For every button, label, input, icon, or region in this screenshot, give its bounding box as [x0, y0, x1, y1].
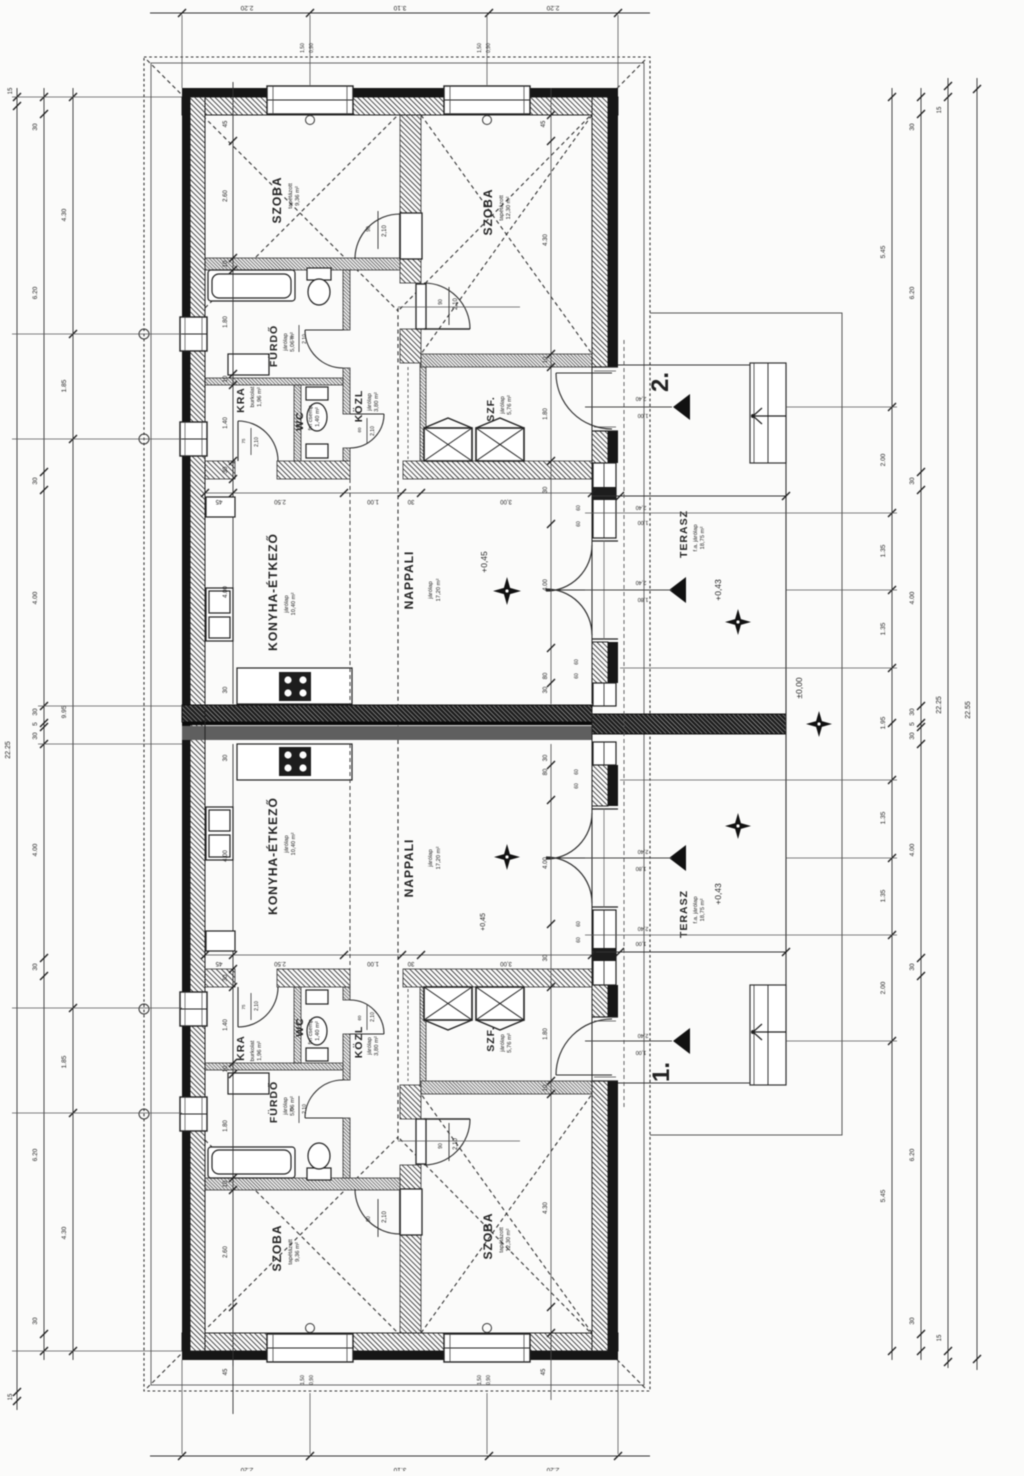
door leader line (unit 1): [398, 1140, 520, 1142]
inner wall face lines u2: [205, 114, 592, 116]
svg-text:2.00: 2.00: [880, 981, 887, 994]
svg-text:4.00: 4.00: [543, 579, 549, 591]
left wall window: [180, 992, 207, 1026]
svg-text:3.10: 3.10: [393, 4, 406, 11]
svg-text:2,10: 2,10: [254, 437, 260, 447]
svg-text:22.25: 22.25: [5, 741, 12, 759]
svg-text:90: 90: [366, 226, 372, 232]
door wc (unit 1): [350, 1033, 384, 1035]
svg-text:KRA: KRA: [235, 1035, 247, 1061]
interior chain horizontal u2: [205, 492, 592, 494]
svg-text:fm csemp.: fm csemp.: [308, 403, 314, 430]
svg-text:15: 15: [8, 1393, 14, 1400]
szoba2 X diagonal b: [421, 115, 592, 354]
right wall pier A: [592, 431, 608, 463]
svg-text:80: 80: [543, 768, 549, 775]
svg-text:10: 10: [223, 1065, 229, 1072]
svg-text:1,50: 1,50: [300, 43, 306, 53]
svg-text:2,40: 2,40: [638, 925, 649, 931]
svg-text:1.95: 1.95: [880, 716, 887, 729]
svg-text:burkolat: burkolat: [250, 1040, 256, 1061]
interior chain horizontal u1: [205, 954, 592, 956]
svg-text:30: 30: [543, 954, 549, 961]
right exterior wall lower hatched: [592, 1081, 608, 1351]
svg-text:30: 30: [223, 754, 229, 761]
svg-text:±0,00: ±0,00: [794, 677, 804, 698]
wall furdo-kozl (unit 2): [343, 270, 350, 330]
svg-text:1.80: 1.80: [223, 316, 229, 328]
svg-text:4.00: 4.00: [223, 850, 229, 862]
left dim chain 2 line: [43, 88, 45, 1360]
svg-text:2.50: 2.50: [274, 498, 286, 504]
svg-text:1.80: 1.80: [543, 408, 549, 420]
svg-text:30: 30: [32, 708, 39, 716]
svg-text:45: 45: [215, 960, 222, 966]
wall szf left thin (unit 2): [420, 363, 426, 461]
wall furdo-kozl (unit 1): [343, 1118, 350, 1178]
svg-text:60: 60: [574, 659, 580, 665]
interior chain vertical right u2: [550, 88, 552, 704]
svg-text:+0,45: +0,45: [479, 551, 489, 573]
svg-text:10: 10: [543, 1084, 549, 1091]
svg-text:2,10: 2,10: [382, 1211, 388, 1223]
left wall window: [180, 1097, 207, 1131]
svg-text:2,40: 2,40: [638, 848, 649, 854]
roof hip top-right: [398, 60, 645, 311]
svg-text:1,00: 1,00: [636, 940, 647, 946]
party wall joint gray band: [182, 726, 592, 740]
svg-text:WC: WC: [294, 1017, 306, 1037]
svg-text:30: 30: [909, 477, 916, 485]
svg-text:SZOBA: SZOBA: [270, 1225, 284, 1272]
porch dashed line: [623, 340, 625, 1110]
szoba1 anti diagonal dashed: [205, 115, 398, 308]
svg-text:0,90: 0,90: [486, 1375, 492, 1385]
left dim chain 3 line: [72, 88, 74, 1360]
svg-text:KÖZL: KÖZL: [352, 390, 365, 423]
left window circle: [139, 1004, 149, 1014]
svg-text:1,50: 1,50: [300, 1375, 306, 1385]
svg-text:NAPPALI: NAPPALI: [402, 839, 416, 898]
svg-text:9.95: 9.95: [61, 705, 68, 718]
svg-text:1.85: 1.85: [61, 1055, 68, 1068]
svg-text:2.20: 2.20: [240, 4, 253, 11]
svg-text:járólap: járólap: [367, 1037, 373, 1055]
svg-text:1,80: 1,80: [636, 865, 647, 871]
svg-text:1.35: 1.35: [880, 889, 887, 902]
door furdo (unit 1): [305, 1117, 343, 1119]
svg-text:f.a. járólap: f.a. járólap: [693, 896, 699, 923]
svg-text:SZF.: SZF.: [485, 396, 497, 422]
unit 2 entrance triangle: [673, 394, 690, 420]
toilet wc room (unit 1): [306, 1048, 328, 1061]
svg-text:1.35: 1.35: [880, 622, 887, 635]
door szoba1 (unit 2): [400, 213, 422, 259]
svg-text:15: 15: [8, 87, 14, 94]
right wall pier B mirror: [592, 765, 608, 806]
wardrobe X boxes szf (unit 1): [424, 987, 472, 1020]
right wall dark pier in window mirror: [592, 948, 616, 961]
left wall window: [180, 422, 207, 456]
svg-text:1.00: 1.00: [367, 498, 379, 504]
svg-text:18,75 m²: 18,75 m²: [700, 526, 706, 549]
svg-text:NAPPALI: NAPPALI: [402, 551, 416, 610]
kitchen counter at party wall (unit 1): [237, 744, 352, 780]
kitchen counter at party wall (unit 2): [237, 668, 352, 704]
toilet wc room (unit 2): [306, 387, 328, 400]
svg-text:1,00: 1,00: [636, 1049, 647, 1055]
svg-text:45: 45: [541, 1368, 547, 1375]
top extension lines: [309, 15, 311, 85]
svg-text:tapétázott: tapétázott: [499, 1227, 505, 1253]
svg-text:17,20 m²: 17,20 m²: [436, 846, 442, 869]
kitchen sink unit (unit 2): [206, 588, 233, 641]
svg-text:45: 45: [223, 1368, 229, 1375]
svg-text:30: 30: [543, 686, 549, 693]
svg-text:2,40: 2,40: [638, 1032, 649, 1038]
svg-text:tapétázott: tapétázott: [288, 1239, 294, 1265]
steps top unit: [750, 363, 786, 463]
svg-text:6.20: 6.20: [909, 286, 916, 299]
svg-text:KONYHA-ÉTKEZŐ: KONYHA-ÉTKEZŐ: [265, 797, 280, 915]
svg-text:30: 30: [223, 466, 229, 473]
kitchen cabinet (unit 2): [206, 497, 235, 517]
bathtub (unit 2): [208, 270, 295, 301]
roof ridge dashed: [397, 308, 399, 1140]
door szoba2 (unit 1): [416, 1119, 426, 1164]
svg-text:75: 75: [289, 335, 294, 341]
svg-text:4.00: 4.00: [909, 843, 916, 856]
wall kra-wc (unit 1): [294, 987, 301, 1063]
svg-text:4.00: 4.00: [543, 857, 549, 869]
svg-text:SZOBA: SZOBA: [270, 177, 284, 224]
svg-text:4.30: 4.30: [61, 208, 68, 221]
svg-text:4.00: 4.00: [32, 843, 39, 856]
inner wall face lines u1: [205, 1332, 592, 1334]
terrace slab outline: [618, 365, 786, 1083]
svg-text:SZF.: SZF.: [485, 1026, 497, 1052]
wardrobe X boxes szf (unit 2): [424, 428, 472, 461]
svg-text:30: 30: [32, 123, 39, 131]
svg-text:30: 30: [223, 686, 229, 693]
right dim chain C line: [947, 78, 949, 1368]
svg-text:3,00: 3,00: [500, 960, 512, 966]
roof hip bottom-right: [398, 1137, 645, 1388]
svg-text:1,40 m²: 1,40 m²: [315, 1021, 321, 1041]
svg-text:1,96 m²: 1,96 m²: [257, 1041, 263, 1061]
window W2 center circle: [483, 116, 492, 125]
svg-text:+0,43: +0,43: [713, 883, 723, 905]
svg-text:60: 60: [574, 769, 580, 775]
svg-text:KÖZL: KÖZL: [352, 1026, 365, 1059]
svg-text:10: 10: [223, 1180, 229, 1187]
svg-text:járólap: járólap: [500, 396, 506, 414]
svg-text:22.25: 22.25: [936, 696, 943, 714]
svg-text:10: 10: [223, 375, 229, 382]
svg-text:járólap: járólap: [428, 581, 434, 599]
right wall door jambs mirror: [592, 1080, 618, 1082]
svg-text:2,10: 2,10: [382, 225, 388, 237]
unit 1 terrace triangle: [669, 845, 686, 871]
door szoba2 (unit 2): [416, 284, 426, 329]
svg-text:1.80: 1.80: [223, 1120, 229, 1132]
wc toilet in bathroom (unit 2): [307, 268, 331, 280]
svg-text:fm csemp.: fm csemp.: [308, 1017, 314, 1044]
washbasin (unit 1): [228, 1073, 269, 1094]
svg-text:10: 10: [543, 356, 549, 363]
svg-text:burkolat: burkolat: [250, 386, 256, 407]
svg-text:KRA: KRA: [235, 387, 247, 413]
svg-text:2,10: 2,10: [302, 1104, 308, 1114]
left window circle: [139, 329, 149, 339]
door wc (unit 2): [350, 413, 384, 415]
svg-text:1.00: 1.00: [367, 960, 379, 966]
svg-text:6.20: 6.20: [32, 286, 39, 299]
svg-text:0,90: 0,90: [309, 1375, 315, 1385]
svg-text:1.80: 1.80: [543, 1028, 549, 1040]
right wall small window mirror: [593, 742, 616, 765]
right wall small window: [593, 683, 616, 706]
right wall window band mirror: [593, 910, 616, 985]
svg-text:6.20: 6.20: [32, 1148, 39, 1161]
svg-text:6.20: 6.20: [909, 1148, 916, 1161]
svg-text:30: 30: [407, 498, 414, 504]
svg-text:9,36 m²: 9,36 m²: [295, 186, 301, 206]
svg-text:4.30: 4.30: [61, 1226, 68, 1239]
roof hip top-left: [147, 60, 398, 311]
svg-text:1.40: 1.40: [223, 417, 229, 429]
szoba1 anti diagonal dashed mirror: [205, 1140, 398, 1333]
svg-text:2,10: 2,10: [370, 426, 376, 436]
svg-text:WC: WC: [294, 411, 306, 431]
svg-text:2,10: 2,10: [302, 334, 308, 344]
svg-text:járólap: járólap: [284, 595, 290, 613]
svg-text:90: 90: [438, 1143, 444, 1149]
svg-text:12,30 m²: 12,30 m²: [506, 1228, 512, 1251]
svg-text:30: 30: [407, 960, 414, 966]
svg-text:1,00: 1,00: [638, 519, 649, 525]
svg-text:3.10: 3.10: [393, 1466, 406, 1471]
roof hip bottom-left: [147, 1137, 398, 1388]
door furdo (unit 2): [305, 329, 343, 331]
svg-text:10: 10: [223, 260, 229, 267]
svg-text:90: 90: [438, 299, 444, 305]
svg-text:9,36 m²: 9,36 m²: [295, 1242, 301, 1262]
svg-text:1,00: 1,00: [638, 412, 649, 418]
svg-text:2.60: 2.60: [223, 190, 229, 202]
svg-text:2,40: 2,40: [636, 579, 647, 585]
terrace north edge: [592, 495, 786, 497]
room divider dashed kozl u2: [349, 479, 351, 704]
right dim chain D line: [976, 78, 978, 1370]
svg-text:2.00: 2.00: [880, 453, 887, 466]
szf dashed boundary (unit 2): [407, 367, 409, 459]
wall furdo bottom (unit 2): [205, 378, 343, 385]
room divider dashed kozl u1: [349, 744, 351, 969]
szoba2 X diagonal a: [421, 115, 592, 354]
party wall center line: [182, 722, 592, 725]
svg-text:5.45: 5.45: [880, 245, 887, 258]
svg-text:0,90: 0,90: [486, 43, 492, 53]
svg-text:45: 45: [223, 120, 229, 127]
svg-text:45: 45: [541, 120, 547, 127]
left window circle: [139, 434, 149, 444]
svg-text:5: 5: [909, 722, 916, 726]
svg-text:járólap: járólap: [367, 393, 373, 411]
svg-text:10,40 m²: 10,40 m²: [291, 832, 297, 855]
bottom dim chain line: [150, 1455, 650, 1457]
bottom exterior wall hatched: [182, 1333, 618, 1351]
right exterior wall upper hatched: [592, 97, 608, 367]
svg-text:60: 60: [574, 673, 580, 679]
svg-text:2.60: 2.60: [223, 1246, 229, 1258]
right wall pier B: [592, 642, 608, 683]
svg-text:2,40: 2,40: [636, 395, 647, 401]
wall kitchen band (unit 2): [205, 461, 235, 479]
svg-text:30: 30: [32, 477, 39, 485]
interior chain vertical right u1: [550, 744, 552, 1360]
svg-text:4.30: 4.30: [543, 1202, 549, 1214]
window W2: [444, 86, 530, 114]
svg-text:4.00: 4.00: [909, 591, 916, 604]
svg-text:2,10: 2,10: [453, 298, 459, 310]
door terrace big arc (unit 2): [546, 545, 592, 635]
svg-text:4.30: 4.30: [543, 234, 549, 246]
right wall dark pier in window: [592, 487, 616, 500]
left wall window: [180, 317, 207, 351]
right wall door jambs: [592, 366, 618, 368]
roof overhang dashed outline: [144, 57, 650, 1391]
top dim chain line: [150, 12, 650, 14]
unit 2 terrace triangle: [669, 577, 686, 603]
steps bottom unit: [750, 985, 786, 1085]
left chain1 ticks: [13, 93, 21, 101]
svg-text:5,76 m²: 5,76 m²: [507, 1033, 513, 1053]
svg-text:járólap: járólap: [284, 835, 290, 853]
svg-text:tapétázott: tapétázott: [499, 195, 505, 221]
szoba2 X diagonal b mirror: [421, 1094, 592, 1333]
window W1 center circle: [306, 116, 315, 125]
svg-text:1.: 1.: [648, 1062, 675, 1082]
wall kra-wc (unit 2): [294, 385, 301, 461]
svg-text:30: 30: [909, 1317, 916, 1325]
svg-text:1.40: 1.40: [223, 1019, 229, 1031]
terrace south edge: [592, 951, 786, 953]
door terrace big arc (unit 1): [546, 813, 592, 903]
stove (unit 1): [279, 747, 311, 776]
top exterior wall hatched: [182, 97, 618, 115]
left exterior wall hatched: [190, 97, 205, 1351]
svg-text:15: 15: [937, 1334, 943, 1341]
wall szf left thin (unit 1): [420, 987, 426, 1085]
svg-text:2,10: 2,10: [453, 1138, 459, 1150]
left dim chain 1 line: [16, 88, 18, 1410]
svg-text:5: 5: [32, 722, 39, 726]
washbasin (unit 2): [228, 354, 269, 375]
door szf entrance (unit 1): [556, 1074, 612, 1076]
window W1 mirror: [267, 1334, 353, 1362]
svg-text:60: 60: [576, 521, 582, 527]
svg-text:2,10: 2,10: [254, 1001, 260, 1011]
svg-text:1,80: 1,80: [638, 596, 649, 602]
right dim chain B line: [920, 88, 922, 1360]
wall szoba2 bottom (unit 2): [421, 354, 592, 367]
svg-text:60: 60: [357, 1015, 362, 1021]
svg-text:+0,45: +0,45: [480, 913, 487, 931]
svg-text:3,80 m²: 3,80 m²: [374, 392, 380, 412]
szf dashed boundary (unit 1): [407, 989, 409, 1081]
party wall terrace extension: [592, 714, 786, 734]
svg-text:2.50: 2.50: [274, 960, 286, 966]
svg-text:75: 75: [241, 438, 246, 444]
door kamra (unit 2): [237, 421, 239, 461]
wc toilet in bathroom (unit 1): [307, 1168, 331, 1180]
svg-text:1,96 m²: 1,96 m²: [257, 387, 263, 407]
svg-text:járólap: járólap: [500, 1034, 506, 1052]
interior chain vertical left u2: [229, 137, 237, 145]
window W1: [267, 86, 353, 114]
svg-text:TERASZ: TERASZ: [678, 510, 690, 558]
roof eave solid outline: [151, 63, 644, 1385]
bottom extension lines: [309, 1393, 311, 1454]
window W2 center circle mirror: [483, 1324, 492, 1333]
svg-text:90: 90: [366, 1216, 372, 1222]
wall furdo bottom (unit 1): [205, 1063, 343, 1070]
unit 1 entrance triangle: [673, 1028, 690, 1054]
svg-text:1,50: 1,50: [477, 43, 483, 53]
stove (unit 2): [279, 672, 311, 701]
svg-text:15: 15: [937, 106, 943, 113]
interior chain vertical left u1: [229, 1303, 237, 1311]
svg-text:1.85: 1.85: [61, 379, 68, 392]
svg-text:60: 60: [574, 783, 580, 789]
right wall window band: [593, 463, 616, 538]
door szf entrance (unit 2): [556, 372, 612, 374]
window W2 mirror: [444, 1334, 530, 1362]
wall szoba1 bottom (unit 1): [205, 1178, 400, 1190]
left extension lines: [12, 96, 182, 98]
svg-text:30: 30: [223, 974, 229, 981]
svg-text:30: 30: [909, 963, 916, 971]
kitchen sink unit (unit 1): [206, 807, 233, 860]
window W1 center circle mirror: [306, 1324, 315, 1333]
svg-text:3,80 m²: 3,80 m²: [374, 1036, 380, 1056]
svg-text:járólap: járólap: [428, 849, 434, 867]
svg-text:TERASZ: TERASZ: [678, 890, 690, 938]
right dim chain A line: [891, 88, 893, 1360]
svg-text:1.35: 1.35: [880, 811, 887, 824]
left window circle: [139, 1109, 149, 1119]
wall szoba1 bottom (unit 2): [205, 258, 400, 270]
kitchen counter line (unit 2): [232, 82, 234, 704]
szoba2 X diagonal a mirror: [421, 1094, 592, 1333]
svg-text:2.20: 2.20: [240, 1466, 253, 1471]
svg-text:2.20: 2.20: [546, 4, 559, 11]
svg-text:30: 30: [909, 123, 916, 131]
right extension lines: [585, 512, 897, 514]
svg-text:12,30 m²: 12,30 m²: [506, 196, 512, 219]
svg-text:5,06 m²: 5,06 m²: [290, 332, 296, 352]
svg-text:60: 60: [357, 427, 362, 433]
svg-text:FÜRDŐ: FÜRDŐ: [267, 1081, 280, 1123]
svg-text:60: 60: [576, 505, 582, 511]
svg-text:1,50: 1,50: [477, 1375, 483, 1385]
door szoba1 (unit 1): [400, 1189, 422, 1235]
svg-text:f.a. járólap: f.a. járólap: [693, 524, 699, 551]
svg-text:2,10: 2,10: [370, 1012, 376, 1022]
svg-text:4.00: 4.00: [223, 586, 229, 598]
svg-text:30: 30: [909, 708, 916, 716]
